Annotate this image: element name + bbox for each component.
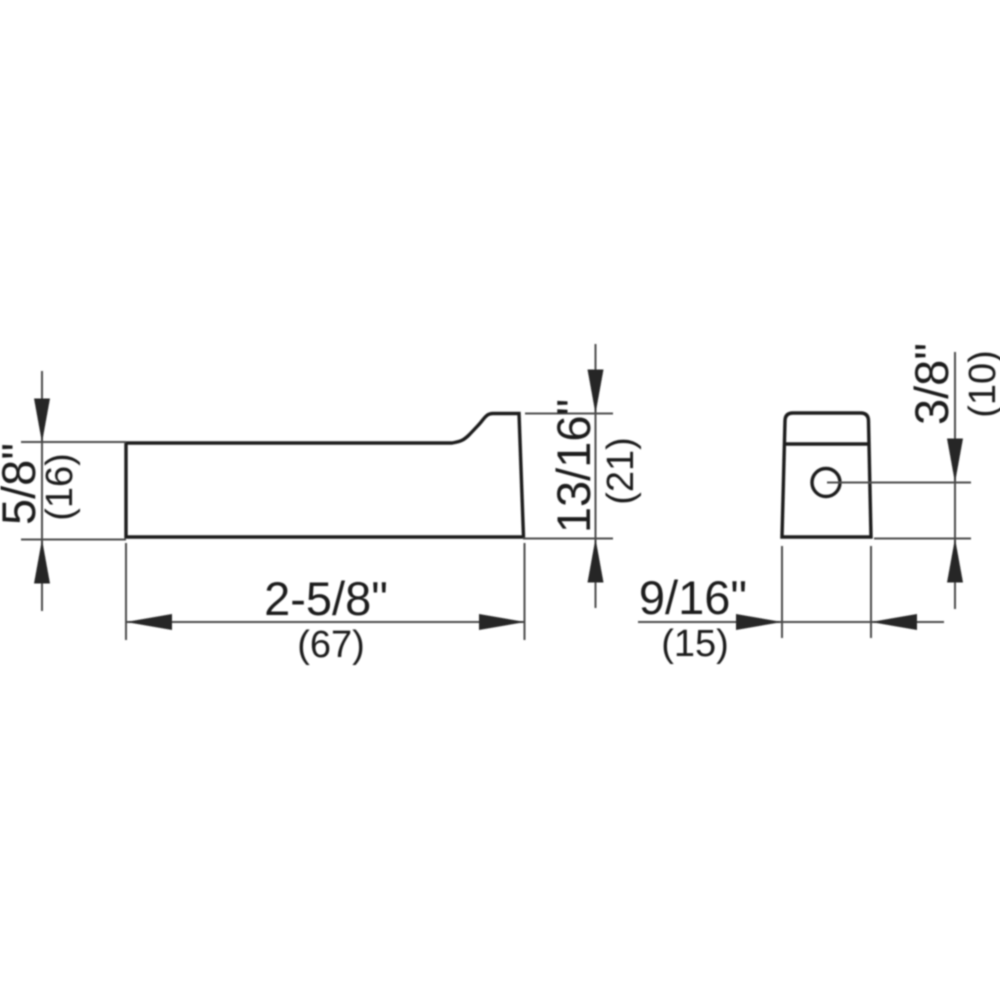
dim 13/16 upper arrow (588, 370, 604, 414)
dim 2-5/8 left extension line (125, 543, 127, 640)
dim 2-5/8 right extension line (524, 543, 526, 640)
dim 5/8 top extension line (21, 441, 126, 443)
dim 2-5/8 right arrow (479, 614, 525, 630)
svg-text:(21): (21) (600, 437, 642, 505)
hole circle (812, 469, 840, 497)
dim 9/16 left extension line (781, 546, 783, 638)
dim 3/8 upper arrow (947, 439, 963, 483)
side view outline (hook body) (126, 414, 524, 538)
svg-text:2-5/8": 2-5/8" (264, 572, 388, 625)
dim 9/16 right extension line (870, 546, 872, 638)
dim 3/8 lower arrow (947, 539, 963, 583)
svg-text:13/16": 13/16" (547, 399, 600, 533)
svg-text:(16): (16) (39, 453, 81, 521)
dim 13/16 dimension line (595, 344, 597, 608)
dim 5/8 dimension line (41, 371, 43, 611)
dim 5/8 lower arrow (34, 540, 50, 584)
dim 2-5/8 left arrow (126, 614, 172, 630)
dim 9/16 dimension line (638, 621, 944, 623)
end view separation line (785, 442, 869, 445)
end view outline (mount block) (782, 413, 871, 537)
dim 3/8 bottom extension line (874, 538, 971, 540)
dim 3/8 dimension line (954, 352, 956, 609)
dim 13/16 bottom extension line (523, 538, 613, 540)
dim 9/16 right arrow (871, 614, 917, 630)
dim 13/16 top extension line (525, 413, 613, 415)
svg-text:(67): (67) (297, 624, 365, 666)
dim 9/16 left arrow (736, 614, 782, 630)
dim 2-5/8 dimension line (126, 621, 525, 623)
dim 5/8 upper arrow (34, 399, 50, 443)
dim 13/16 lower arrow (588, 539, 604, 583)
svg-text:(10): (10) (962, 350, 1000, 418)
svg-text:9/16": 9/16" (639, 571, 747, 624)
dim 3/8 hole-center extension line (827, 482, 971, 484)
svg-text:3/8": 3/8" (905, 343, 958, 425)
dim 5/8 bottom extension line (21, 539, 126, 541)
svg-text:(15): (15) (661, 623, 729, 665)
